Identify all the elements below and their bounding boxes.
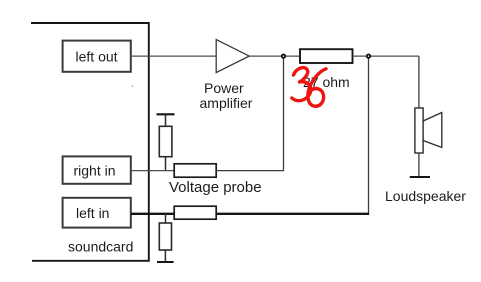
node A junction — [282, 54, 285, 57]
wire resistor to corner — [353, 55, 420, 57]
wire R2 to right-in wire — [165, 157, 167, 171]
wire left in to probe resistor — [131, 213, 174, 215]
wire node B down to left-in probe — [368, 56, 370, 214]
svg-text:Voltage probe: Voltage probe — [169, 179, 262, 196]
port right in — [63, 156, 131, 183]
resistor R3 voltage probe upper — [174, 164, 216, 177]
svg-text:left in: left in — [76, 205, 109, 221]
soundcard outline — [31, 23, 149, 261]
svg-text:amplifier: amplifier — [200, 95, 253, 111]
wire node A down to voltage probe — [283, 56, 285, 171]
wire left-in junction down to divider resistor — [165, 214, 167, 223]
wire R4 to node B column — [216, 213, 369, 215]
loudspeaker LS1 — [415, 108, 442, 153]
port left out — [63, 41, 131, 72]
terminal bar above divider resistor — [157, 113, 175, 115]
wire loudspeaker to ground — [418, 153, 420, 177]
wire right in to probe resistor — [131, 170, 174, 172]
resistor R1 27 ohm — [300, 49, 353, 63]
wire left out to amplifier — [131, 55, 216, 57]
ground loudspeaker — [410, 176, 430, 178]
wire terminal to resistor R2 — [165, 114, 167, 126]
wire R3 to node A column — [216, 170, 284, 172]
ground divider — [157, 261, 174, 263]
svg-text:right in: right in — [74, 162, 116, 178]
resistor R2 divider upper — [159, 126, 172, 156]
svg-text:soundcard: soundcard — [68, 239, 133, 255]
svg-text:Power: Power — [204, 80, 244, 96]
port left in — [63, 198, 131, 228]
resistor R5 divider lower — [159, 223, 171, 250]
wire R5 to ground — [164, 250, 166, 262]
svg-text:Loudspeaker: Loudspeaker — [385, 188, 466, 204]
op-amp U1 power amplifier — [216, 40, 249, 73]
wire down to loudspeaker — [418, 56, 420, 108]
stray speck — [132, 85, 134, 87]
handwritten red 36 annotation — [292, 68, 326, 107]
wire amplifier output — [249, 55, 300, 57]
node B junction — [367, 54, 370, 57]
resistor R4 voltage probe lower — [174, 206, 216, 219]
svg-text:left out: left out — [76, 48, 118, 64]
